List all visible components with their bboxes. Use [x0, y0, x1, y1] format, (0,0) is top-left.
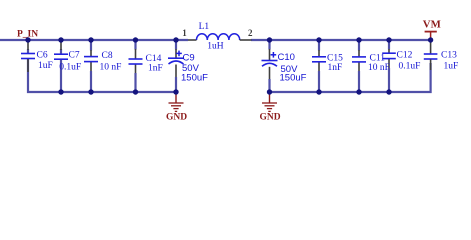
- svg-text:GND: GND: [166, 113, 187, 123]
- pin number 2: [248, 28, 253, 38]
- inductor L1: [188, 22, 252, 52]
- svg-text:150uF: 150uF: [181, 73, 208, 84]
- svg-text:0.1uF: 0.1uF: [59, 63, 81, 73]
- capacitor C8: [84, 51, 121, 73]
- wire C6 top lead: [27, 42, 29, 54]
- svg-text:GND: GND: [260, 113, 281, 123]
- wire top rail right of L1: [251, 39, 431, 41]
- svg-text:C8: C8: [102, 51, 113, 61]
- svg-text:C14: C14: [146, 54, 162, 64]
- svg-text:150uF: 150uF: [280, 73, 307, 84]
- svg-text:1nF: 1nF: [328, 63, 343, 73]
- svg-text:10 nF: 10 nF: [368, 63, 390, 73]
- svg-text:C6: C6: [37, 51, 48, 61]
- svg-text:1uF: 1uF: [38, 61, 53, 71]
- junction dots top rail: [25, 37, 433, 42]
- svg-text:VM: VM: [423, 19, 441, 31]
- wire C13 top lead: [430, 42, 432, 54]
- ground GND2: [260, 92, 281, 123]
- capacitor C6: [21, 51, 53, 73]
- wire C8 leads: [90, 40, 92, 92]
- svg-text:1uF: 1uF: [444, 62, 459, 72]
- capacitor C12: [382, 51, 420, 72]
- capacitor C13: [424, 51, 458, 72]
- wire C12 leads: [388, 40, 390, 92]
- wire C9 leads: [175, 40, 177, 92]
- svg-text:1: 1: [182, 28, 187, 38]
- wire C14 leads: [134, 40, 136, 92]
- svg-text:C12: C12: [397, 51, 413, 61]
- wire C10 leads: [268, 40, 270, 92]
- pin number 1: [182, 28, 187, 38]
- net label P_IN: [17, 29, 38, 39]
- svg-text:C9: C9: [183, 53, 195, 64]
- capacitor C14: [129, 54, 163, 74]
- svg-text:0.1uF: 0.1uF: [399, 62, 421, 72]
- wire C15 leads: [318, 40, 320, 92]
- svg-text:C13: C13: [441, 51, 457, 61]
- capacitor C15: [312, 54, 343, 74]
- svg-text:C7: C7: [69, 51, 80, 61]
- capacitor C7: [54, 51, 81, 73]
- svg-text:C10: C10: [278, 52, 295, 63]
- svg-text:10 nF: 10 nF: [100, 63, 122, 73]
- capacitor C11: [352, 54, 390, 74]
- wire bottom rail left: [28, 59, 176, 92]
- svg-text:L1: L1: [199, 22, 210, 32]
- wire top rail left of L1: [0, 39, 188, 41]
- power port VM: [423, 19, 441, 40]
- ground GND1: [166, 92, 187, 123]
- capacitor C9 (polarized): [168, 51, 208, 84]
- svg-text:C15: C15: [327, 54, 343, 64]
- wire C7 leads: [60, 42, 62, 93]
- capacitor C10 (polarized): [262, 52, 307, 84]
- svg-text:1uH: 1uH: [207, 41, 224, 51]
- wire bottom rail right: [270, 63, 431, 92]
- svg-text:1nF: 1nF: [148, 64, 163, 74]
- junction dots bottom rail: [58, 89, 391, 94]
- svg-text:2: 2: [248, 28, 253, 38]
- wire C11 leads: [358, 40, 360, 92]
